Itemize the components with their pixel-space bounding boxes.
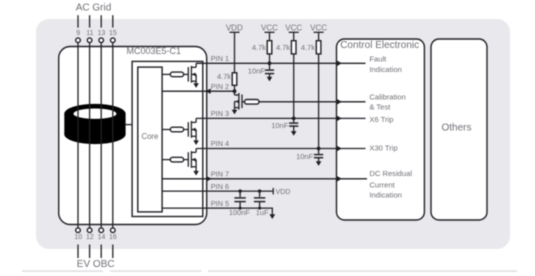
svg-text:VDD: VDD xyxy=(276,189,291,196)
arrowhead out of chip on PIN 7 xyxy=(206,176,212,181)
svg-text:4.7k: 4.7k xyxy=(301,43,315,52)
svg-text:10nF: 10nF xyxy=(296,152,314,161)
svg-text:PIN 3: PIN 3 xyxy=(211,109,229,118)
svg-text:Indication: Indication xyxy=(369,65,402,74)
wire R6 to PIN3 xyxy=(293,54,295,119)
arrowhead DC residual xyxy=(337,176,342,182)
terminal circle pin 12 xyxy=(87,228,92,233)
wire EV OBC stub 2 xyxy=(89,245,91,259)
svg-text:16: 16 xyxy=(109,234,117,241)
svg-text:10: 10 xyxy=(74,234,82,241)
svg-text:11: 11 xyxy=(86,30,93,37)
wire PIN 3 net xyxy=(196,117,336,119)
terminal circle pin 15 xyxy=(111,38,116,43)
wire AC grid stub 3 xyxy=(100,15,102,27)
svg-text:PIN 4: PIN 4 xyxy=(211,139,229,148)
svg-text:VCC: VCC xyxy=(310,23,327,32)
ground arrow on PIN 5 xyxy=(269,214,275,219)
power VDD tap on PIN 6 xyxy=(273,188,290,196)
capacitor C2 10nF xyxy=(289,118,298,135)
junction C5 PIN6 xyxy=(258,189,261,192)
svg-text:4.7k: 4.7k xyxy=(252,43,266,52)
svg-text:PIN 7: PIN 7 xyxy=(211,170,229,179)
junction C4 PIN5 xyxy=(239,207,242,210)
svg-text:VDD: VDD xyxy=(226,23,243,32)
wire EV OBC stub 1 xyxy=(77,245,79,259)
wire AC line 4 through chip xyxy=(112,43,114,228)
power VDD top xyxy=(226,23,243,73)
resistor R3 gate of Q3 xyxy=(162,157,188,162)
transistor Q1 xyxy=(188,63,199,88)
block Control Electronic xyxy=(337,39,425,220)
wire DC residual stub xyxy=(337,178,368,180)
junction C4 PIN6 xyxy=(238,189,241,192)
junction PIN3 VCC2 xyxy=(292,117,296,121)
svg-text:12: 12 xyxy=(86,234,94,241)
svg-text:1uF: 1uF xyxy=(256,208,269,217)
wire AC line 3 through chip xyxy=(100,43,102,228)
transistor Q3 xyxy=(188,149,199,176)
junction PIN1 VCC1 xyxy=(268,61,272,65)
wire PIN 7 net xyxy=(162,178,336,180)
core block xyxy=(138,67,162,212)
wire PIN 5 net xyxy=(162,208,272,214)
arrowhead X6 trip xyxy=(337,116,342,122)
transistor Q4 external calibration xyxy=(232,91,242,114)
wire R4 to PIN2 xyxy=(234,85,236,91)
wire AC grid stub 1 xyxy=(77,15,79,27)
terminal circle pin 11 xyxy=(87,38,92,43)
svg-text:100nF: 100nF xyxy=(229,208,250,217)
junction PIN2 VDD xyxy=(233,89,237,93)
svg-text:& Test: & Test xyxy=(369,103,391,112)
wire core to inner block xyxy=(125,124,133,126)
wire PIN 2 net xyxy=(162,90,234,92)
svg-text:Indication: Indication xyxy=(369,191,402,200)
terminal circle pin 16 xyxy=(111,228,116,233)
junction PIN4 VCC3 xyxy=(317,147,321,151)
wire calibration and test net xyxy=(259,101,337,103)
svg-text:PIN 2: PIN 2 xyxy=(211,82,229,91)
resistor R4 4.7k VDD to PIN2 xyxy=(232,73,237,86)
svg-text:Fault: Fault xyxy=(369,55,387,64)
resistor R2 gate of Q2 xyxy=(162,127,188,132)
svg-text:15: 15 xyxy=(109,30,117,37)
svg-text:PIN 1: PIN 1 xyxy=(211,54,229,63)
wire X30 trip stub xyxy=(337,148,366,150)
capacitor C4 100nF xyxy=(234,191,245,208)
resistor R7 4.7k xyxy=(316,41,321,54)
svg-text:9: 9 xyxy=(76,30,80,37)
svg-text:4.7k: 4.7k xyxy=(217,72,231,81)
svg-text:MC003E5-C1: MC003E5-C1 xyxy=(127,46,182,56)
capacitor C3 10nF xyxy=(314,149,323,166)
power VCC 1 xyxy=(261,23,278,40)
capacitor C1 10nF xyxy=(265,63,274,81)
wire PIN 4 net xyxy=(196,148,336,150)
wire X6 trip stub xyxy=(337,117,366,119)
svg-text:DC Residual: DC Residual xyxy=(369,169,412,178)
wire calibration stub xyxy=(337,101,366,103)
block Others xyxy=(431,39,487,220)
arrowhead X30 trip xyxy=(337,146,342,152)
svg-text:VCC: VCC xyxy=(261,23,278,32)
svg-text:X6 Trip: X6 Trip xyxy=(369,115,393,124)
power VCC 3 xyxy=(310,23,327,40)
svg-text:X30 Trip: X30 Trip xyxy=(369,143,397,152)
svg-text:13: 13 xyxy=(98,30,106,37)
wire PIN 6 net xyxy=(162,190,273,192)
capacitor C5 1uF xyxy=(254,191,265,208)
svg-text:Calibration: Calibration xyxy=(369,93,405,102)
arrowhead into chip on PIN 2 xyxy=(205,89,210,94)
svg-text:Core: Core xyxy=(141,132,158,141)
svg-text:10nF: 10nF xyxy=(271,121,289,130)
wire EV OBC stub 4 xyxy=(112,245,114,259)
svg-text:Others: Others xyxy=(441,123,471,134)
terminal circle pin 9 xyxy=(76,38,81,43)
wire AC line 2 through chip xyxy=(89,43,91,228)
svg-text:PIN 6: PIN 6 xyxy=(211,182,229,191)
IC U1 MC003E5-C1 outer body xyxy=(59,47,207,225)
svg-text:10nF: 10nF xyxy=(248,66,266,75)
wire PIN 1 net xyxy=(196,62,336,64)
svg-text:4.7k: 4.7k xyxy=(276,43,290,52)
resistor R8 gate of Q4 xyxy=(242,100,259,105)
svg-text:VCC: VCC xyxy=(285,23,302,32)
terminal circle pin 14 xyxy=(99,228,104,233)
svg-text:PIN 5: PIN 5 xyxy=(211,199,229,208)
svg-text:AC Grid: AC Grid xyxy=(76,2,112,13)
decorative bottom edge lines xyxy=(22,270,517,272)
arrowhead fault indication xyxy=(337,60,342,66)
terminal circle pin 10 xyxy=(76,228,81,233)
transistor Q2 xyxy=(188,118,199,145)
wire R7 to PIN4 xyxy=(318,54,320,149)
current transformer core toroid xyxy=(64,104,125,144)
wire EV OBC stub 3 xyxy=(100,245,102,259)
background panel xyxy=(36,19,510,249)
svg-text:Current: Current xyxy=(369,181,395,190)
junction C5 PIN5 xyxy=(258,207,261,210)
svg-text:EV OBC: EV OBC xyxy=(77,259,115,270)
wire fault indication stub xyxy=(337,62,366,64)
wire AC grid stub 4 xyxy=(112,15,114,27)
IC inner block xyxy=(132,61,203,216)
resistor R6 4.7k xyxy=(291,41,296,54)
svg-text:14: 14 xyxy=(98,234,106,241)
wire AC grid stub 2 xyxy=(89,15,91,27)
arrowhead calibration xyxy=(337,99,342,105)
resistor R1 gate of Q1 xyxy=(162,72,188,77)
power VCC 2 xyxy=(285,23,302,40)
svg-text:Control Electronic: Control Electronic xyxy=(340,40,419,51)
resistor R5 4.7k xyxy=(267,41,272,54)
wire AC line 1 through chip xyxy=(77,43,79,228)
terminal circle pin 13 xyxy=(99,38,104,43)
wire R5 to PIN1 xyxy=(269,54,271,63)
